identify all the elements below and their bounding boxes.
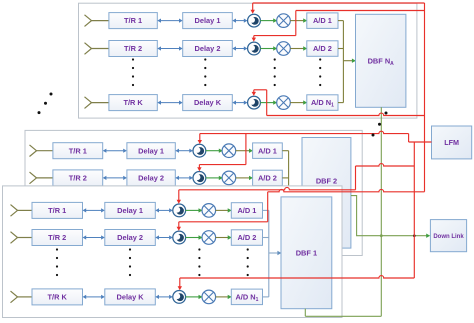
ellipsis dots column T/R (top panel) bbox=[132, 58, 134, 86]
wire red step to middle bus bbox=[408, 134, 410, 142]
wire Delay-circulator row 1 (middle panel) bbox=[175, 149, 193, 153]
wire Delay-circulator row 1 (bottom panel) bbox=[155, 208, 173, 212]
wire A/D output row 1 (bottom panel) bbox=[263, 209, 269, 211]
ellipsis dots column A/D (top panel) bbox=[319, 58, 321, 86]
mixer row 2 (top panel) bbox=[277, 42, 291, 56]
antenna element 2 (middle panel) bbox=[30, 172, 53, 184]
subarray panel 1 (bottom) bbox=[3, 186, 343, 318]
wire bus to DBF 1 input bbox=[269, 251, 282, 255]
svg-text:A/D 1: A/D 1 bbox=[313, 16, 332, 25]
wire T/R-Delay row 1 (middle panel) bbox=[103, 149, 127, 153]
ellipsis dots column Delay (top panel) bbox=[204, 58, 206, 86]
wire T/R-Delay row 2 (middle panel) bbox=[103, 176, 127, 180]
circulator row 2 (bottom panel) bbox=[173, 231, 186, 244]
bus A/D collection (middle panel) bbox=[288, 151, 290, 186]
block DBF 2 (middle panel) bbox=[302, 138, 351, 249]
svg-text:Delay 2: Delay 2 bbox=[117, 233, 143, 242]
block Down Link bbox=[430, 220, 466, 252]
wire DBF 1 output drop bbox=[304, 309, 306, 317]
wire A/D output row 3 (top panel) bbox=[338, 102, 343, 104]
wire T/R-Delay row 3 (bottom panel) bbox=[83, 295, 105, 299]
mixer row 1 (middle panel) bbox=[222, 144, 236, 158]
circulator row 3 (bottom panel) bbox=[173, 291, 186, 304]
wire red drop to circulator row2 (top panel) bbox=[252, 36, 256, 42]
wire DBF output bottom run bbox=[305, 315, 381, 317]
svg-text:DBF 1: DBF 1 bbox=[296, 248, 317, 257]
wire red bus (middle panel) bbox=[200, 131, 409, 133]
ellipsis dots cascade (left) bbox=[38, 93, 53, 115]
wire red branch row2 (middle panel) vertical bbox=[245, 134, 247, 165]
block Delay K (bottom panel) bbox=[105, 289, 156, 305]
wire red branch row2 (middle panel) horizontal bbox=[199, 164, 246, 166]
wire DBF N_A output (vertical bus) bbox=[380, 107, 382, 316]
wire red drop to circulator row1 (bottom panel) bbox=[177, 190, 181, 204]
svg-text:T/R 2: T/R 2 bbox=[48, 233, 66, 242]
svg-text:A/D 2: A/D 2 bbox=[258, 174, 277, 183]
svg-text:A/D 1: A/D 1 bbox=[258, 146, 277, 155]
wire mixer-A/D row 2 (bottom panel) bbox=[216, 235, 232, 239]
antenna element 2 (bottom panel) bbox=[11, 232, 33, 244]
svg-text:Delay K: Delay K bbox=[194, 98, 222, 107]
wire red step down x355 bbox=[355, 166, 357, 190]
mixer row 3 (top panel) bbox=[277, 96, 291, 110]
wire red drop to circulator row2 (bottom panel) bbox=[177, 222, 181, 231]
block T/R 2 (bottom panel) bbox=[32, 230, 83, 246]
circulator row 3 (top panel) bbox=[248, 96, 261, 109]
circulator row 2 (top panel) bbox=[248, 42, 261, 55]
subarray panel 2 (middle) bbox=[25, 130, 362, 255]
svg-text:A/D 2: A/D 2 bbox=[313, 44, 332, 53]
ellipsis dots column T/R (bottom panel) bbox=[56, 248, 58, 276]
svg-text:T/R 1: T/R 1 bbox=[124, 16, 142, 25]
wire T/R-Delay row 2 (bottom panel) bbox=[83, 235, 105, 239]
block T/R 2 (top panel) bbox=[109, 41, 157, 57]
wire circulator-mixer row 3 (bottom panel) bbox=[185, 295, 202, 299]
wire A/D output row 1 (top panel) bbox=[338, 20, 343, 22]
circulator row 1 (top panel) bbox=[248, 14, 261, 27]
svg-text:T/R 1: T/R 1 bbox=[48, 206, 66, 215]
wire mixer-A/D row 1 (top panel) bbox=[290, 18, 307, 22]
wire circulator-mixer row 2 (top panel) bbox=[260, 46, 277, 50]
block A/D 2 (bottom panel) bbox=[231, 230, 262, 246]
wire red trunk right (outer) bbox=[424, 3, 426, 192]
antenna element 1 (middle panel) bbox=[30, 145, 53, 157]
antenna element 3 (top panel) bbox=[85, 97, 109, 109]
mixer row 1 (bottom panel) bbox=[202, 204, 216, 218]
block A/D 1 (top panel) bbox=[307, 13, 338, 29]
wire circulator-mixer row 1 (middle panel) bbox=[206, 149, 223, 153]
wire red bus row2 (bottom panel) bbox=[268, 189, 425, 191]
wire A/D output row 2 (bottom panel) bbox=[263, 237, 269, 239]
mixer row 2 (bottom panel) bbox=[202, 231, 216, 245]
wire mixer-A/D row 3 (top panel) bbox=[290, 100, 307, 104]
block T/R K (bottom panel) bbox=[32, 289, 83, 305]
svg-text:T/R K: T/R K bbox=[48, 293, 68, 302]
mixer row 1 (top panel) bbox=[277, 14, 291, 28]
wire mixer-A/D row 1 (bottom panel) bbox=[216, 208, 232, 212]
ellipsis dots column A/D (bottom panel) bbox=[247, 248, 249, 276]
svg-text:A/D 2: A/D 2 bbox=[237, 233, 256, 242]
wire A/D output row 3 (bottom panel) bbox=[263, 296, 269, 298]
ellipsis dots cascade (right) bbox=[372, 112, 388, 137]
circulator row 1 (middle panel) bbox=[193, 144, 206, 157]
wire red rowK riser (top panel) bbox=[266, 90, 268, 116]
wire circulator-mixer row 2 (middle panel) bbox=[206, 176, 223, 180]
block A/D 1 (bottom panel) bbox=[231, 203, 262, 219]
wire T/R-Delay row 3 (top panel) bbox=[157, 101, 182, 105]
antenna element 1 (bottom panel) bbox=[11, 205, 33, 217]
svg-text:T/R K: T/R K bbox=[123, 98, 143, 107]
wire red bus C (top panel) bbox=[267, 113, 425, 115]
wire red rowK jog (top panel) bbox=[254, 89, 267, 91]
wire bus to DBF N_A input bbox=[343, 59, 356, 63]
svg-text:Delay 2: Delay 2 bbox=[195, 44, 221, 53]
svg-text:Delay K: Delay K bbox=[117, 293, 145, 302]
wire circulator-mixer row 1 (top panel) bbox=[260, 18, 277, 22]
wire to Down Link bbox=[381, 234, 430, 238]
ellipsis dots column Delay (bottom panel) bbox=[129, 248, 131, 276]
wire red drop to circulator row1 (top panel) bbox=[251, 3, 255, 14]
wire circulator-mixer row 1 (bottom panel) bbox=[185, 208, 202, 212]
wire red top bus A bbox=[253, 2, 425, 4]
svg-text:Delay 2: Delay 2 bbox=[138, 174, 164, 183]
wire Delay-circulator row 2 (middle panel) bbox=[175, 176, 193, 180]
wire Delay-circulator row 3 (top panel) bbox=[232, 101, 247, 105]
node DBF output junction bbox=[380, 234, 383, 237]
wire circulator-mixer row 2 (bottom panel) bbox=[185, 235, 202, 239]
wire T/R-Delay row 2 (top panel) bbox=[157, 46, 182, 50]
wire Delay-circulator row 2 (top panel) bbox=[232, 46, 247, 50]
svg-text:A/D N1: A/D N1 bbox=[311, 98, 334, 109]
circulator row 1 (bottom panel) bbox=[173, 204, 186, 217]
svg-text:A/D N1: A/D N1 bbox=[235, 293, 258, 304]
block Delay 2 (middle panel) bbox=[127, 170, 175, 186]
block T/R 2 (middle panel) bbox=[53, 170, 103, 186]
mixer row 3 (bottom panel) bbox=[202, 290, 216, 304]
wire red branch row2 (bottom panel) vertical bbox=[267, 192, 269, 222]
wire red branch row2 (top panel) vertical bbox=[295, 11, 297, 36]
wire A/D output row 1 (middle panel) bbox=[282, 150, 288, 152]
svg-text:DBF 2: DBF 2 bbox=[316, 177, 337, 186]
wire red drop to circulator row2 (middle panel) bbox=[197, 165, 201, 172]
wire red branch row2 (bottom panel) horizontal bbox=[179, 221, 268, 223]
wire A/D output row 2 (top panel) bbox=[338, 48, 343, 50]
svg-text:T/R 2: T/R 2 bbox=[69, 174, 87, 183]
wire red link at y166 bbox=[356, 164, 415, 166]
wire DBF 2 output bbox=[351, 196, 381, 236]
block T/R 1 (top panel) bbox=[109, 13, 157, 29]
block A/D N (bottom panel) bbox=[231, 289, 262, 305]
block A/D N (top panel) bbox=[307, 95, 338, 111]
wire red bus row1 (bottom panel) bbox=[179, 187, 356, 189]
wire mixer-A/D row 2 (top panel) bbox=[290, 46, 307, 50]
svg-text:T/R 2: T/R 2 bbox=[124, 44, 142, 53]
svg-text:Delay 1: Delay 1 bbox=[195, 16, 221, 25]
wire mixer-A/D row 3 (bottom panel) bbox=[216, 295, 232, 299]
wire red trunk down (inner) bbox=[413, 142, 415, 278]
block Delay K (top panel) bbox=[183, 95, 233, 111]
wire red drop to circulator rowK (top panel) bbox=[252, 90, 256, 96]
wire Delay-circulator row 3 (bottom panel) bbox=[155, 295, 173, 299]
block DBF N_A (top panel) bbox=[356, 14, 406, 107]
ellipsis dots column circulator (bottom panel) bbox=[198, 248, 200, 276]
wire mixer-A/D row 1 (middle panel) bbox=[236, 149, 253, 153]
block T/R 1 (bottom panel) bbox=[32, 202, 83, 218]
block Delay 2 (top panel) bbox=[183, 41, 233, 57]
bus A/D collection (top panel) bbox=[342, 21, 344, 103]
wire red branch row2 (top panel) horizontal bbox=[254, 35, 296, 37]
svg-text:A/D 1: A/D 1 bbox=[237, 206, 256, 215]
antenna element 1 (top panel) bbox=[85, 15, 109, 27]
block Delay 1 (middle panel) bbox=[127, 143, 175, 159]
wire red bus rowK (bottom panel) bbox=[180, 276, 414, 278]
wire red drop to circulator row1 (middle panel) bbox=[198, 134, 202, 144]
block T/R K (top panel) bbox=[109, 95, 157, 111]
block A/D 2 (middle panel) bbox=[253, 170, 283, 186]
svg-text:LFM: LFM bbox=[444, 138, 459, 147]
block DBF 1 (bottom panel) bbox=[281, 197, 332, 309]
block Delay 1 (bottom panel) bbox=[105, 202, 156, 218]
circulator row 2 (middle panel) bbox=[193, 172, 206, 185]
wire A/D output row 2 (middle panel) bbox=[282, 177, 288, 179]
wire red top bus B bbox=[296, 10, 425, 12]
wire Delay-circulator row 2 (bottom panel) bbox=[155, 235, 173, 239]
wire Delay-circulator row 1 (top panel) bbox=[232, 19, 247, 23]
svg-text:T/R 1: T/R 1 bbox=[69, 146, 87, 155]
wire mixer-A/D row 2 (middle panel) bbox=[236, 176, 253, 180]
svg-text:Down Link: Down Link bbox=[433, 234, 464, 240]
wire T/R-Delay row 1 (top panel) bbox=[157, 19, 182, 23]
block Delay 2 (bottom panel) bbox=[105, 230, 156, 246]
bus A/D collection (bottom panel) bbox=[268, 210, 270, 297]
mixer row 2 (middle panel) bbox=[222, 171, 236, 185]
block A/D 1 (middle panel) bbox=[253, 143, 283, 159]
wire circulator-mixer row 3 (top panel) bbox=[260, 100, 277, 104]
node crossing dot (red trunk / downlink wire) bbox=[413, 234, 416, 237]
wire LFM input bbox=[409, 141, 432, 143]
wire red drop to circulator rowK (bottom panel) bbox=[178, 278, 182, 290]
block T/R 1 (middle panel) bbox=[53, 143, 103, 159]
subarray panel N_A (top) bbox=[79, 3, 417, 118]
antenna element 2 (top panel) bbox=[85, 43, 109, 55]
block Delay 1 (top panel) bbox=[183, 13, 233, 29]
antenna element 3 (bottom panel) bbox=[11, 291, 33, 303]
wire T/R-Delay row 1 (bottom panel) bbox=[83, 208, 105, 212]
svg-text:Delay 1: Delay 1 bbox=[117, 206, 143, 215]
svg-text:Delay 1: Delay 1 bbox=[138, 146, 164, 155]
block LFM generator bbox=[432, 126, 472, 159]
ellipsis dots column mixer (top panel) bbox=[274, 58, 276, 86]
block A/D 2 (top panel) bbox=[307, 41, 338, 57]
